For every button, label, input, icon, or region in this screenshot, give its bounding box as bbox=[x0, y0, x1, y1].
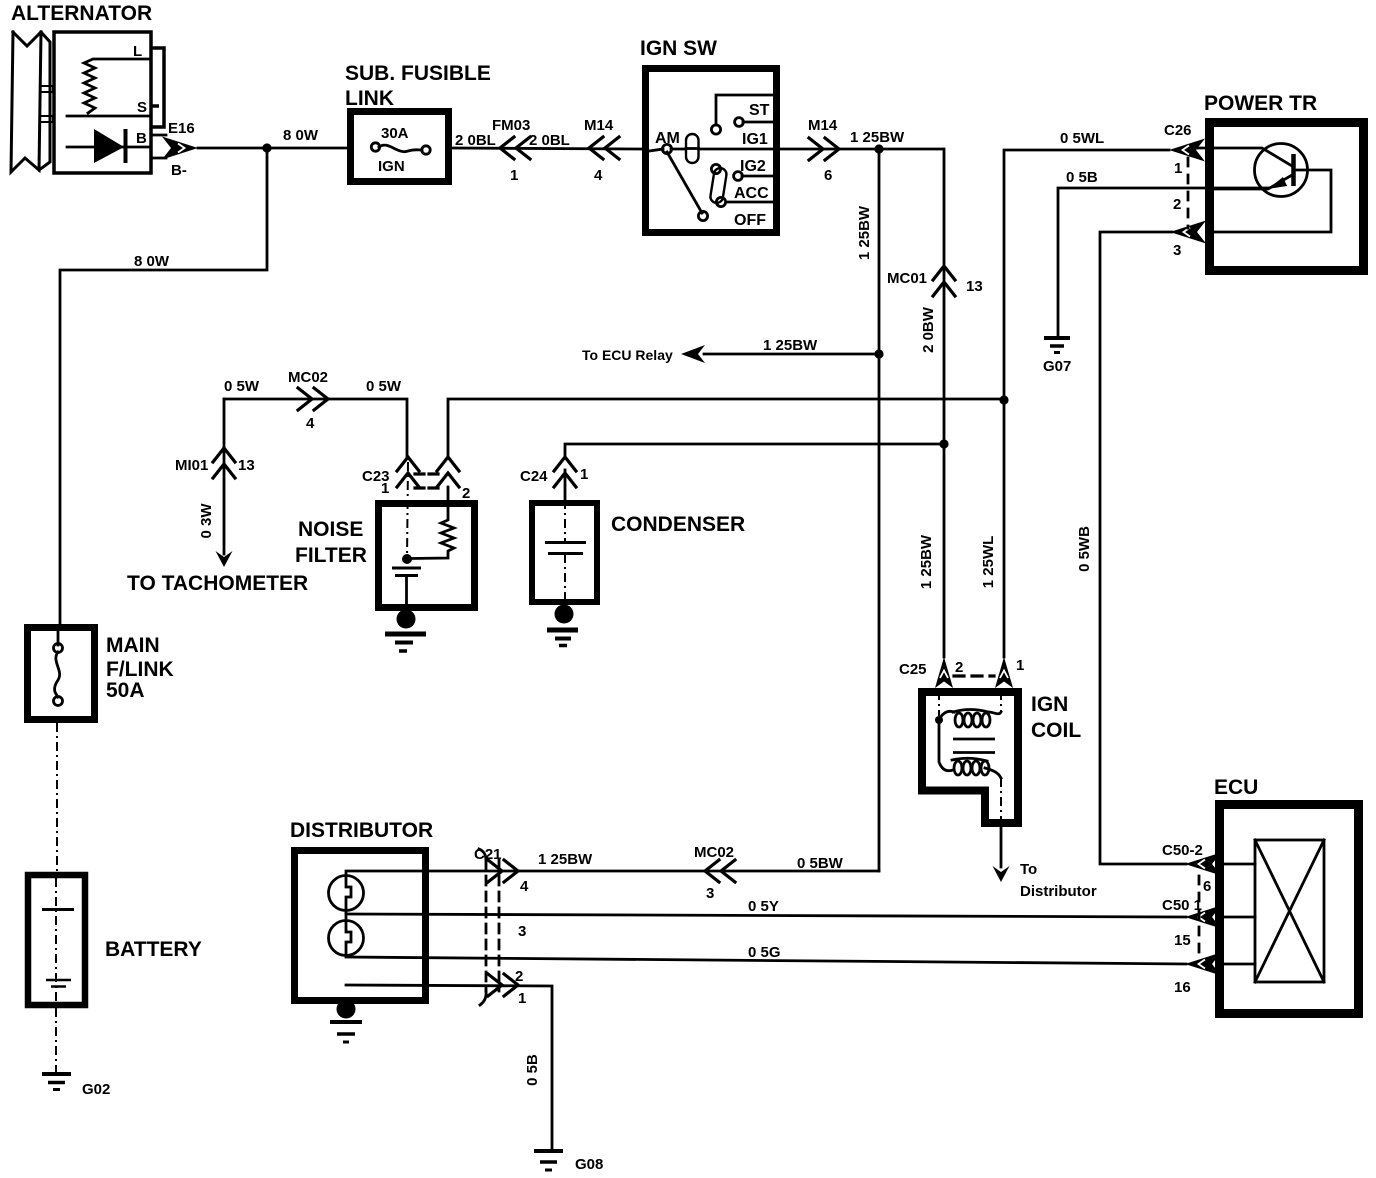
ign coil primary winding bbox=[939, 710, 1001, 728]
svg-text:0 5WB: 0 5WB bbox=[1076, 526, 1093, 572]
wire 0.5WB (pin3) to ECU bbox=[1100, 232, 1186, 864]
svg-text:0 5B: 0 5B bbox=[524, 1054, 541, 1086]
wire 0.5G distributor pin 2 bbox=[346, 957, 1186, 964]
wire 0.5W right segment bbox=[448, 399, 1004, 457]
svg-text:50A: 50A bbox=[106, 679, 145, 702]
svg-text:MC01: MC01 bbox=[887, 270, 927, 287]
svg-text:M14: M14 bbox=[584, 117, 614, 134]
svg-text:4: 4 bbox=[594, 167, 603, 184]
svg-text:MC02: MC02 bbox=[694, 844, 734, 861]
IGN SW AM feed wire bbox=[649, 149, 663, 151]
transistor Q1 bbox=[1255, 144, 1308, 197]
svg-text:L: L bbox=[133, 43, 142, 60]
svg-text:POWER TR: POWER TR bbox=[1204, 92, 1317, 115]
sub fusible link box bbox=[351, 112, 449, 182]
connector MC02 (pin 4) bbox=[298, 388, 328, 410]
wire 1.25BW main vertical bbox=[878, 149, 881, 871]
wire battery to ground (dash-dot) bbox=[55, 1008, 57, 1072]
alternator box bbox=[54, 32, 151, 173]
svg-text:ECU: ECU bbox=[1214, 776, 1258, 799]
lever end contact bbox=[698, 211, 707, 220]
noise filter resistor bbox=[411, 487, 454, 559]
svg-text:C24: C24 bbox=[520, 468, 548, 485]
distributor case ground dot bbox=[337, 1000, 356, 1019]
battery box bbox=[28, 875, 85, 1005]
alternator S terminal line bbox=[67, 115, 151, 118]
ground G07 bbox=[1044, 336, 1070, 340]
wire condenser C24 branch bbox=[565, 444, 944, 457]
svg-text:0 3W: 0 3W bbox=[198, 503, 215, 539]
connector C21 chevron (pin 4) bbox=[488, 860, 518, 882]
noise filter capacitor bbox=[392, 568, 421, 576]
wire main f/link to battery (dash-dot) bbox=[56, 723, 58, 874]
ECU block diagonals bbox=[1255, 840, 1324, 982]
svg-text:C21: C21 bbox=[474, 846, 502, 863]
svg-text:1: 1 bbox=[1174, 160, 1182, 177]
contact capsule (AM row) bbox=[686, 134, 699, 163]
battery cell plates bbox=[42, 908, 74, 911]
svg-text:1: 1 bbox=[518, 990, 526, 1007]
node noise filter junction bbox=[402, 554, 412, 564]
node 0.5W junction bbox=[999, 395, 1008, 404]
wire fusible link to IGN SW bbox=[452, 148, 642, 149]
IGN SW switch lever bbox=[667, 152, 702, 213]
svg-text:15: 15 bbox=[1174, 932, 1191, 949]
svg-text:To ECU Relay: To ECU Relay bbox=[582, 347, 673, 363]
svg-text:F/LINK: F/LINK bbox=[106, 658, 174, 681]
main fusible link element bbox=[57, 627, 60, 645]
noise filter box bbox=[379, 504, 475, 608]
svg-text:G07: G07 bbox=[1043, 358, 1071, 375]
connector C50-2 pin 6 arrow bbox=[1185, 853, 1221, 876]
svg-text:1 25BW: 1 25BW bbox=[538, 851, 593, 868]
svg-text:1: 1 bbox=[580, 466, 588, 483]
svg-text:B-: B- bbox=[171, 162, 187, 179]
svg-text:E16: E16 bbox=[168, 120, 195, 137]
svg-text:MAIN: MAIN bbox=[106, 634, 160, 657]
svg-text:0 5WL: 0 5WL bbox=[1060, 130, 1104, 147]
wire 0.5Y distributor pin 3 bbox=[346, 914, 1186, 917]
alternator B terminal tabs bbox=[152, 135, 166, 158]
connector C26 pin 3 arrow bbox=[1170, 221, 1206, 244]
ground G08 bbox=[534, 1149, 563, 1153]
node ECU relay junction bbox=[874, 349, 883, 358]
svg-text:IG2: IG2 bbox=[740, 158, 766, 175]
ECU pin 6 stub bbox=[1217, 863, 1255, 866]
C23 dashed link bbox=[415, 474, 443, 488]
svg-text:1 25WL: 1 25WL bbox=[980, 536, 997, 589]
node junction 1.25BW bbox=[874, 144, 883, 153]
svg-text:G02: G02 bbox=[82, 1081, 110, 1098]
svg-text:ACC: ACC bbox=[734, 185, 769, 202]
svg-text:C25: C25 bbox=[899, 661, 927, 678]
svg-text:TO TACHOMETER: TO TACHOMETER bbox=[127, 572, 308, 595]
condenser case ground dot bbox=[555, 605, 574, 624]
svg-text:MC02: MC02 bbox=[288, 369, 328, 386]
svg-text:FM03: FM03 bbox=[492, 117, 530, 134]
wire 8.0W drop to main fusible link bbox=[60, 148, 267, 626]
ACC contact capsule bbox=[710, 167, 728, 204]
svg-text:MI01: MI01 bbox=[175, 457, 208, 474]
C50 dashed link bbox=[1198, 876, 1201, 957]
transistor collector lead bbox=[1196, 148, 1292, 166]
connector C50-1 pin 15 arrow bbox=[1185, 906, 1221, 929]
svg-text:4: 4 bbox=[520, 878, 529, 895]
ECU pin 16 stub bbox=[1217, 963, 1255, 966]
alternator L/S connector bracket bbox=[152, 48, 164, 127]
svg-text:6: 6 bbox=[824, 167, 832, 184]
connector M14 (pin 4) bbox=[589, 137, 619, 159]
svg-text:1: 1 bbox=[1016, 657, 1024, 674]
svg-text:2: 2 bbox=[515, 968, 523, 985]
battery internal lead (dash-dot) bbox=[55, 878, 57, 1002]
wire IGN SW to junction bbox=[780, 148, 879, 151]
transistor base bar bbox=[1291, 154, 1296, 186]
connector C25 pin 2 arrow bbox=[935, 657, 953, 688]
ignition switch box bbox=[646, 69, 777, 233]
svg-text:IGN: IGN bbox=[378, 158, 405, 175]
connector C23 pin 1 bbox=[397, 457, 419, 487]
ign coil core bbox=[953, 739, 995, 753]
noise filter pin1 lead (dash-dot) bbox=[407, 462, 408, 560]
IGN SW AM-IG1 wire bbox=[671, 148, 773, 151]
svg-text:6: 6 bbox=[1203, 878, 1211, 895]
svg-text:COIL: COIL bbox=[1031, 719, 1081, 742]
connector C25 pin 1 arrow bbox=[995, 657, 1013, 688]
svg-text:B: B bbox=[136, 130, 147, 147]
ST riser wire bbox=[716, 95, 773, 125]
svg-text:DISTRIBUTOR: DISTRIBUTOR bbox=[290, 819, 433, 842]
svg-text:C50 1: C50 1 bbox=[1162, 897, 1202, 914]
svg-text:1 25BW: 1 25BW bbox=[850, 129, 905, 146]
ign coil HT output lead bbox=[1000, 778, 1002, 823]
svg-text:M14: M14 bbox=[808, 117, 838, 134]
svg-text:S: S bbox=[137, 99, 147, 116]
wire 1.25BW distributor pin 4 bbox=[346, 871, 879, 877]
connector C50-1 pin 16 arrow bbox=[1185, 953, 1221, 976]
main fusible link box bbox=[28, 628, 95, 720]
ECU box bbox=[1220, 805, 1359, 1014]
svg-text:IGN SW: IGN SW bbox=[640, 37, 717, 60]
ign coil pin 2 lead bbox=[938, 691, 940, 716]
svg-text:0 5W: 0 5W bbox=[366, 378, 402, 395]
wire 0.3W tachometer branch bbox=[223, 399, 226, 554]
svg-text:8 0W: 8 0W bbox=[134, 253, 170, 270]
To ECU Relay arrow bbox=[681, 345, 705, 363]
C25 dashed link bbox=[954, 674, 994, 677]
C26 dashed link bbox=[1187, 158, 1190, 228]
wire B to fusible link bbox=[198, 147, 347, 150]
fusible link element bbox=[379, 145, 422, 152]
svg-text:BATTERY: BATTERY bbox=[105, 938, 202, 961]
svg-text:Distributor: Distributor bbox=[1020, 883, 1097, 900]
svg-text:3: 3 bbox=[706, 885, 714, 902]
wire 0.5WL (pin1) bbox=[1004, 150, 1169, 657]
alternator rotor coil bbox=[84, 59, 151, 113]
svg-text:0 5Y: 0 5Y bbox=[748, 898, 779, 915]
distributor pickup coil 2 bbox=[329, 921, 364, 956]
connector C21 chevron (pin 1) bbox=[488, 974, 518, 996]
svg-text:0 5BW: 0 5BW bbox=[797, 855, 844, 872]
connector MC02 (pin 3) bbox=[705, 860, 735, 882]
svg-text:13: 13 bbox=[966, 278, 983, 295]
node coil primary-secondary junction bbox=[935, 716, 943, 724]
ground (distributor) bbox=[330, 1020, 362, 1024]
ECU pin 15 stub bbox=[1217, 916, 1255, 919]
ECU internal block bbox=[1255, 840, 1324, 982]
IG2 contact and wire bbox=[734, 172, 743, 181]
svg-text:1 25BW: 1 25BW bbox=[918, 534, 935, 589]
svg-text:OFF: OFF bbox=[734, 212, 766, 229]
connector MC01 bbox=[933, 266, 955, 296]
svg-text:IG1: IG1 bbox=[742, 131, 768, 148]
condenser lead (dash-dot) bbox=[564, 470, 567, 500]
wire to ECU relay bbox=[704, 353, 879, 356]
connector C26 pin 1 arrow bbox=[1169, 139, 1205, 162]
svg-text:2: 2 bbox=[955, 659, 963, 676]
svg-text:1 25BW: 1 25BW bbox=[763, 337, 818, 354]
svg-text:16: 16 bbox=[1174, 979, 1191, 996]
svg-text:C50-2: C50-2 bbox=[1162, 842, 1203, 859]
wire 0.5B distributor pin 1 to ground bbox=[346, 985, 552, 1150]
ground (condenser) bbox=[547, 628, 578, 633]
svg-text:2 0BW: 2 0BW bbox=[920, 306, 937, 353]
connector M14 (pin 6) bbox=[809, 138, 839, 160]
connector E16 arrow bbox=[162, 137, 198, 160]
ign coil secondary winding bbox=[939, 720, 1001, 778]
svg-text:ST: ST bbox=[749, 102, 770, 119]
power transistor box bbox=[1210, 123, 1364, 271]
svg-text:2 0BL: 2 0BL bbox=[529, 132, 570, 149]
transistor emitter lead bbox=[1214, 175, 1292, 189]
wire MC01 branch bbox=[879, 149, 944, 657]
svg-text:To: To bbox=[1020, 861, 1037, 878]
connector C21 dashed bracket bbox=[486, 860, 499, 991]
svg-text:C26: C26 bbox=[1164, 122, 1192, 139]
svg-text:0 5G: 0 5G bbox=[748, 944, 781, 961]
condenser box bbox=[532, 503, 597, 602]
ground G02 bbox=[42, 1072, 71, 1076]
svg-text:4: 4 bbox=[306, 415, 315, 432]
svg-text:ALTERNATOR: ALTERNATOR bbox=[11, 2, 152, 25]
connector MI01 bbox=[213, 448, 235, 478]
svg-text:CONDENSER: CONDENSER bbox=[611, 513, 745, 536]
svg-text:LINK: LINK bbox=[345, 87, 394, 110]
svg-text:NOISE: NOISE bbox=[298, 518, 363, 541]
svg-text:13: 13 bbox=[238, 457, 255, 474]
noise filter case ground dot bbox=[397, 610, 416, 629]
svg-text:2: 2 bbox=[462, 485, 470, 502]
to distributor arrow bbox=[993, 866, 1010, 882]
svg-text:G08: G08 bbox=[575, 1156, 603, 1173]
connector C23 pin 2 bbox=[437, 457, 459, 487]
svg-text:SUB. FUSIBLE: SUB. FUSIBLE bbox=[345, 62, 491, 85]
alternator pulley bbox=[11, 32, 53, 172]
ACC wire bbox=[726, 201, 773, 204]
node junction 8.0W bbox=[262, 143, 271, 152]
svg-text:IGN: IGN bbox=[1031, 693, 1068, 716]
wire 0.5B (pin2) to ground bbox=[1058, 188, 1269, 337]
svg-text:0 5B: 0 5B bbox=[1066, 169, 1098, 186]
node C24 junction bbox=[939, 439, 948, 448]
transistor base loop to pin 3 bbox=[1212, 170, 1331, 232]
distributor internal link bbox=[345, 910, 348, 921]
svg-text:8 0W: 8 0W bbox=[283, 127, 319, 144]
svg-text:3: 3 bbox=[1173, 242, 1181, 259]
svg-text:0 5W: 0 5W bbox=[224, 378, 260, 395]
distributor pickup coil 1 bbox=[329, 876, 364, 911]
svg-text:1: 1 bbox=[381, 480, 389, 497]
ST contact and wire bbox=[735, 118, 744, 127]
ign coil pin 1 lead bbox=[1000, 691, 1002, 712]
svg-text:2 0BL: 2 0BL bbox=[455, 132, 496, 149]
to tachometer arrow bbox=[216, 551, 233, 567]
alternator diode bbox=[67, 146, 151, 149]
svg-text:1 25BW: 1 25BW bbox=[856, 205, 873, 260]
condenser capacitor bbox=[545, 543, 586, 554]
svg-text:2: 2 bbox=[1173, 196, 1181, 213]
wire 0.5W left segment bbox=[224, 399, 407, 457]
ground (noise filter) bbox=[385, 632, 426, 637]
ignition coil box bbox=[922, 692, 1018, 823]
svg-text:3: 3 bbox=[518, 923, 526, 940]
svg-text:1: 1 bbox=[510, 167, 518, 184]
svg-text:FILTER: FILTER bbox=[295, 544, 367, 567]
distributor box bbox=[295, 851, 426, 1001]
svg-text:30A: 30A bbox=[381, 125, 409, 142]
connector C24 bbox=[554, 457, 576, 487]
connector FM03 bbox=[500, 137, 530, 159]
AM contact bbox=[662, 144, 671, 153]
svg-text:AM: AM bbox=[655, 130, 680, 147]
